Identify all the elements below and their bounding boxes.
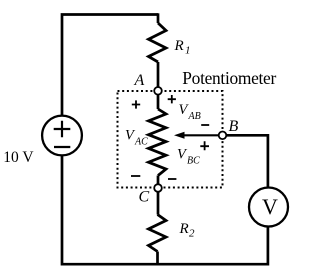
svg-text:Potentiometer: Potentiometer xyxy=(182,68,276,88)
potentiometer resistor element xyxy=(149,109,167,176)
source plus symbol xyxy=(54,121,71,137)
svg-text:R: R xyxy=(174,38,184,54)
wire left-bottom: from source bottom down and across bottom to right xyxy=(62,155,268,264)
minus sign below V_AB xyxy=(201,124,209,126)
svg-text:AC: AC xyxy=(134,137,148,148)
svg-text:1: 1 xyxy=(185,44,191,56)
resistor R2 xyxy=(149,215,167,252)
voltage source circle xyxy=(42,116,82,156)
wire pot top lead xyxy=(157,95,160,109)
node A xyxy=(154,87,162,95)
svg-text:R: R xyxy=(179,221,189,237)
wire R2 bottom lead xyxy=(156,252,159,265)
source minus symbol xyxy=(54,146,70,148)
resistor R1 xyxy=(149,23,167,62)
wire node B to voltmeter xyxy=(226,135,268,188)
node C xyxy=(154,184,162,192)
plus sign top-right in box xyxy=(168,95,176,103)
svg-text:V: V xyxy=(262,194,278,219)
wire node C to R2 xyxy=(157,192,160,215)
svg-text:BC: BC xyxy=(187,155,200,166)
svg-text:A: A xyxy=(134,72,145,89)
dashed box (potentiometer) xyxy=(118,91,223,188)
svg-text:AB: AB xyxy=(188,111,201,122)
svg-text:B: B xyxy=(229,118,239,135)
wire R1 top lead xyxy=(157,13,160,23)
wire top-left loop: from source top, up left side, across top to R1 xyxy=(62,15,158,117)
svg-text:10 V: 10 V xyxy=(3,149,34,166)
wiper arrow line from node B xyxy=(183,134,223,136)
plus sign top-left in box xyxy=(132,100,140,108)
wire R1 bottom lead to node A xyxy=(157,62,160,87)
minus sign bottom-right in box xyxy=(168,178,176,180)
node B xyxy=(219,132,227,140)
svg-text:C: C xyxy=(139,188,150,205)
wiper arrowhead xyxy=(174,132,185,139)
wire pot bottom lead to node C xyxy=(157,176,160,185)
minus sign bottom-left in box xyxy=(131,175,140,177)
svg-text:2: 2 xyxy=(189,228,195,240)
plus sign above V_BC xyxy=(200,141,209,150)
voltmeter V xyxy=(249,188,288,227)
